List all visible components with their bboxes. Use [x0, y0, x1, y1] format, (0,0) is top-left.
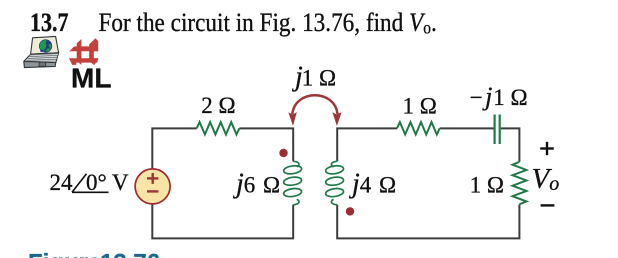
svg-text:1 Ω: 1 Ω — [403, 93, 437, 118]
svg-text:1 Ω: 1 Ω — [470, 172, 504, 197]
svg-text:ML: ML — [71, 63, 111, 94]
svg-text:0° V: 0° V — [86, 170, 129, 195]
svg-text:j4 Ω: j4 Ω — [349, 168, 396, 199]
svg-text:j6 Ω: j6 Ω — [233, 168, 280, 199]
svg-text:2 Ω: 2 Ω — [201, 93, 235, 118]
svg-text:13.7: 13.7 — [30, 9, 68, 37]
svg-text:24: 24 — [50, 170, 74, 195]
svg-text:Figure: Figure — [28, 250, 101, 258]
svg-text:13.76: 13.76 — [100, 250, 160, 258]
svg-text:For the circuit in Fig. 13.76,: For the circuit in Fig. 13.76, find Vo. — [99, 9, 437, 38]
svg-text:−j1 Ω: −j1 Ω — [470, 82, 528, 111]
svg-text:j1 Ω: j1 Ω — [292, 61, 336, 92]
